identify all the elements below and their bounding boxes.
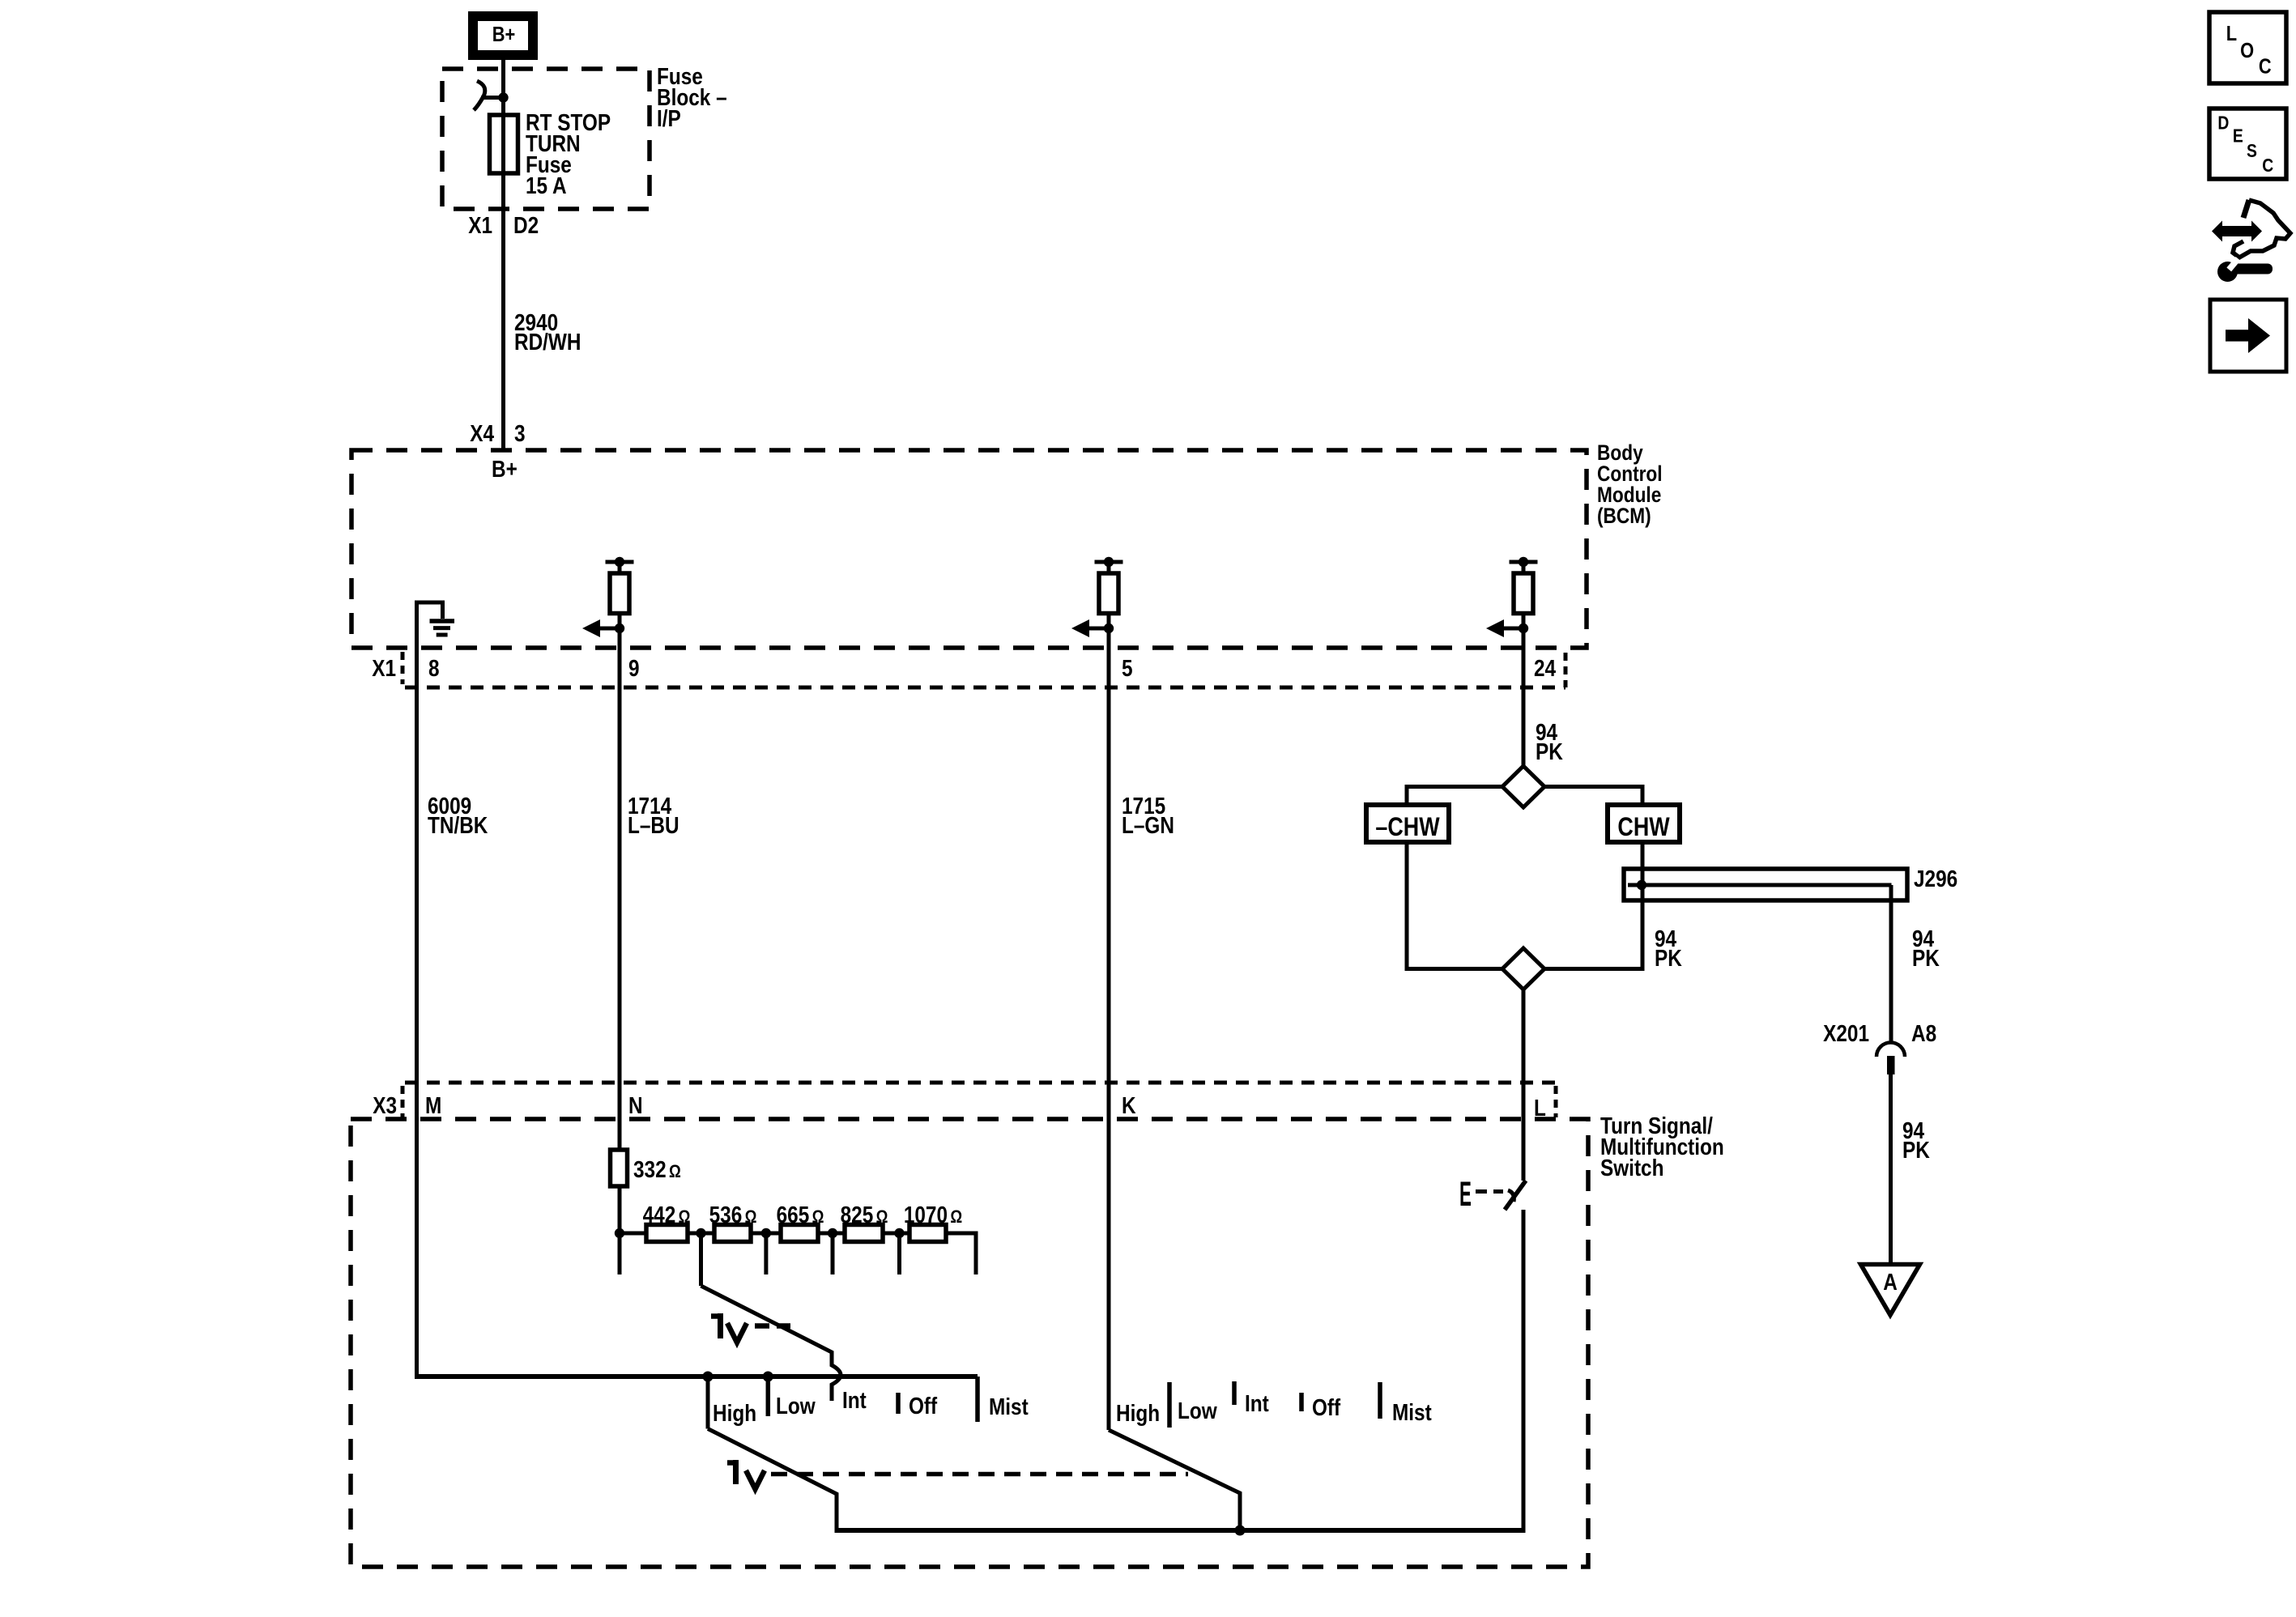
svg-text:B+: B+: [492, 23, 516, 46]
Fuse Block dashed box: [442, 69, 650, 209]
wire B+ feed vertical: [501, 60, 505, 450]
battery feed B+ box: [473, 16, 533, 55]
ladder stub 536: [764, 1233, 768, 1274]
svg-text:B+: B+: [492, 456, 518, 482]
svg-text:X1: X1: [468, 212, 492, 238]
svg-text:D2: D2: [513, 212, 539, 238]
contact bar Off 1: [896, 1393, 901, 1414]
junction dot at fuse tap: [498, 92, 508, 102]
svg-text:1714L–BU: 1714L–BU: [628, 793, 679, 838]
ground reference triangle A: [1861, 1265, 1920, 1316]
svg-text:332Ω: 332Ω: [633, 1156, 681, 1182]
resistor 825 ohm: [841, 1202, 888, 1241]
resistor ladder line: [620, 1232, 978, 1236]
svg-text:5: 5: [1122, 655, 1133, 681]
switch common line from M: [415, 1374, 978, 1379]
wire 1715 L-GN (K): [1107, 687, 1111, 1430]
X1 row left separator: [401, 652, 405, 684]
contact bar Off 2: [1299, 1393, 1304, 1411]
fuse RT STOP TURN 15A element: [490, 115, 518, 173]
svg-text:1070Ω: 1070Ω: [904, 1202, 962, 1228]
svg-text:E: E: [1459, 1175, 1472, 1214]
ladder junction dots: [615, 1228, 905, 1238]
E actuator hook: [1508, 1190, 1514, 1202]
mechanical link symbol 1: [711, 1313, 790, 1343]
svg-text:High: High: [1116, 1400, 1160, 1426]
lower bus wire: [835, 1528, 1526, 1533]
svg-text:Mist: Mist: [989, 1394, 1029, 1419]
fuse pull hook: [474, 81, 485, 110]
connector row X1 bottom dashed line: [405, 686, 1565, 690]
svg-text:CHW: CHW: [1617, 813, 1669, 842]
svg-text:FuseBlock –I/P: FuseBlock –I/P: [657, 63, 727, 131]
svg-text:Int: Int: [1245, 1390, 1269, 1416]
svg-text:J296: J296: [1914, 866, 1957, 891]
resistor 442 ohm: [643, 1202, 691, 1241]
connector row X3 top dashed line: [405, 1081, 1563, 1085]
splice pack J296: [1624, 869, 1907, 900]
wire 1714 L-BU (N): [618, 687, 622, 1274]
E actuator dashed link: [1476, 1189, 1503, 1194]
Body Control Module dashed box: [351, 450, 1587, 648]
wiper arm washer switch diagonal: [1109, 1430, 1240, 1530]
hotlink icon wrench: [2217, 257, 2273, 282]
mechanical link symbol 2: [727, 1460, 765, 1489]
svg-text:9: 9: [628, 655, 640, 681]
driver output symbol pin 5: [1071, 557, 1123, 687]
wiper arm speed selector: [701, 1286, 841, 1401]
junction dot Low: [763, 1372, 773, 1382]
svg-text:94PK: 94PK: [1912, 926, 1940, 971]
wire from lower diamond to switch L: [1522, 989, 1526, 1181]
wire High diagonal to lower bus: [708, 1429, 837, 1534]
svg-text:Int: Int: [842, 1387, 867, 1413]
wire from blade to lower bus: [1522, 1210, 1526, 1533]
svg-text:L: L: [2226, 22, 2237, 45]
svg-text:665Ω: 665Ω: [777, 1202, 824, 1228]
contact bar Low 2: [1167, 1382, 1172, 1428]
DESC icon box: [2209, 109, 2286, 179]
hook link wire: [481, 96, 504, 100]
contact bar Int 2: [1232, 1381, 1237, 1405]
junction dot lower bus: [1235, 1526, 1246, 1536]
svg-text:442Ω: 442Ω: [643, 1202, 691, 1228]
X3 row left separator: [401, 1086, 405, 1117]
svg-text:N: N: [628, 1092, 643, 1118]
coil CHW box: [1608, 805, 1680, 842]
svg-text:X4: X4: [470, 420, 494, 446]
svg-text:3: 3: [514, 420, 526, 446]
svg-text:M: M: [425, 1092, 441, 1118]
hotlink icon component outline: [2233, 200, 2290, 257]
svg-text:X201: X201: [1823, 1020, 1869, 1046]
svg-text:1715L–GN: 1715L–GN: [1122, 793, 1174, 838]
splice diamond lower: [1502, 948, 1544, 989]
wiper tap stub 442: [699, 1233, 703, 1286]
contact bar Mist 2: [1378, 1382, 1382, 1419]
svg-text:94PK: 94PK: [1536, 719, 1563, 764]
splice diamond upper: [1502, 766, 1544, 807]
contact bar Mist 1: [975, 1377, 980, 1422]
wire 94 PK to ground A: [1889, 1074, 1893, 1264]
svg-text:S: S: [2247, 142, 2257, 162]
wire High stub down: [706, 1377, 710, 1429]
svg-text:Turn Signal/MultifunctionSwitc: Turn Signal/MultifunctionSwitch: [1600, 1113, 1724, 1181]
wire 94 PK from pin 24: [1522, 687, 1526, 766]
svg-text:Low: Low: [1178, 1398, 1217, 1423]
ladder stub 665: [831, 1233, 835, 1274]
LOC icon box: [2209, 12, 2286, 83]
svg-text:94PK: 94PK: [1902, 1117, 1930, 1163]
junction dot High: [703, 1372, 714, 1382]
resistor 1070 ohm: [904, 1202, 962, 1241]
mechanical link dashed line 2: [771, 1472, 1188, 1477]
svg-text:Off: Off: [1312, 1394, 1340, 1420]
hotlink icon double arrow: [2212, 221, 2262, 242]
wire 94 PK from J296 right: [1889, 885, 1893, 1042]
svg-text:6009TN/BK: 6009TN/BK: [428, 793, 488, 838]
X1 row right separator: [1564, 653, 1568, 687]
coil -CHW box: [1366, 805, 1449, 842]
svg-text:–CHW: –CHW: [1375, 813, 1439, 842]
svg-text:X1: X1: [372, 655, 396, 681]
resistor 536 ohm: [709, 1202, 757, 1241]
forward arrow icon box: [2210, 300, 2286, 372]
wire below -CHW: [1407, 842, 1502, 969]
svg-text:C: C: [2262, 156, 2273, 177]
svg-text:K: K: [1122, 1092, 1136, 1118]
svg-text:A8: A8: [1911, 1020, 1936, 1046]
svg-text:825Ω: 825Ω: [841, 1202, 888, 1228]
svg-text:D: D: [2217, 113, 2229, 134]
wire below CHW through J296: [1544, 842, 1642, 969]
ground symbol inside BCM: [417, 602, 455, 647]
svg-text:X3: X3: [373, 1092, 397, 1118]
svg-text:94PK: 94PK: [1655, 926, 1682, 971]
resistor 332 ohm: [611, 1150, 681, 1186]
ladder stub 825: [897, 1233, 901, 1274]
svg-text:8: 8: [428, 655, 440, 681]
svg-text:RT STOPTURNFuse15 A: RT STOPTURNFuse15 A: [526, 109, 611, 198]
svg-text:E: E: [2233, 126, 2243, 147]
svg-text:536Ω: 536Ω: [709, 1202, 757, 1228]
svg-text:BodyControlModule(BCM): BodyControlModule(BCM): [1597, 440, 1663, 528]
contact bar Low 1: [766, 1377, 771, 1416]
switch blade L: [1505, 1181, 1526, 1210]
svg-text:A: A: [1883, 1269, 1898, 1295]
svg-text:C: C: [2259, 55, 2272, 79]
wire to CHW (upper right): [1544, 787, 1642, 806]
wire 6009 TN/BK (ground wire M): [415, 602, 419, 1379]
X3 row right separator: [1554, 1086, 1558, 1117]
svg-text:High: High: [713, 1400, 756, 1426]
svg-text:24: 24: [1534, 655, 1556, 681]
svg-text:Low: Low: [776, 1393, 816, 1419]
svg-text:2940RD/WH: 2940RD/WH: [514, 309, 581, 355]
driver output symbol pin 24: [1486, 557, 1538, 687]
svg-text:Mist: Mist: [1392, 1399, 1432, 1425]
resistor 665 ohm: [777, 1202, 824, 1241]
ladder end stub 1070: [974, 1232, 978, 1275]
driver output symbol pin 9: [582, 557, 634, 687]
svg-text:O: O: [2240, 39, 2254, 62]
inline connector X201 symbol: [1876, 1043, 1905, 1075]
wire to -CHW (upper left): [1407, 787, 1502, 806]
svg-text:Off: Off: [909, 1393, 937, 1419]
Turn Signal Multifunction Switch dashed box: [351, 1119, 1588, 1567]
